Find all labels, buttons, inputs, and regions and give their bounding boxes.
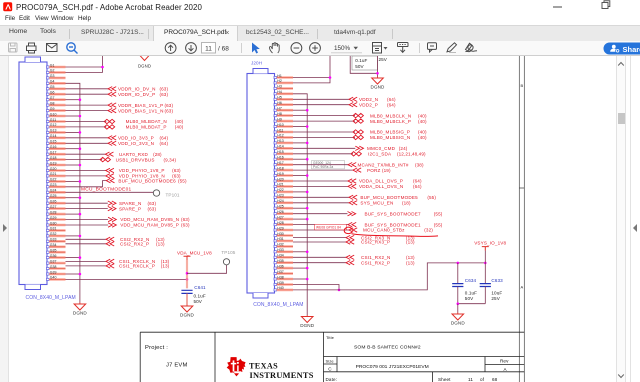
svg-text:(63): (63) — [165, 103, 174, 108]
svg-text:CON_8X40_M_LPAM: CON_8X40_M_LPAM — [26, 295, 76, 301]
svg-text:H29: H29 — [277, 226, 283, 230]
right collapsed panel — [630, 56, 631, 382]
net BUF_MCU_BOOTMODE6 (G23 jog) — [66, 178, 187, 187]
svg-text:(40): (40) — [418, 113, 427, 118]
svg-text:G24: G24 — [50, 189, 57, 193]
svg-text:H37: H37 — [277, 270, 283, 274]
svg-text:DGND: DGND — [180, 313, 195, 318]
ground DGND left bus — [73, 303, 88, 316]
svg-text:MCU_CAN0_STBz: MCU_CAN0_STBz — [363, 228, 405, 233]
svg-text:C634: C634 — [465, 278, 477, 283]
svg-text:H38: H38 — [277, 275, 283, 279]
svg-text:H5: H5 — [277, 96, 282, 100]
svg-text:H16: H16 — [277, 156, 283, 160]
svg-text:0.1uF: 0.1uF — [355, 58, 367, 63]
wire to TP105 — [187, 259, 230, 274]
svg-text:G25: G25 — [50, 194, 57, 198]
svg-text:G13: G13 — [50, 129, 57, 133]
svg-text:H2: H2 — [277, 79, 282, 83]
svg-text:H26: H26 — [277, 210, 283, 214]
connector left CON_8X40_M_LPAM — [19, 57, 76, 301]
net MLB0_MLBSIG_P / MLB0_MLBSIG_N (H11,H12) — [293, 130, 427, 140]
svg-text:(64): (64) — [160, 141, 169, 146]
svg-text:MMC0_CMD: MMC0_CMD — [367, 146, 396, 151]
svg-text:BUF_SYS_BOOTMODE7: BUF_SYS_BOOTMODE7 — [365, 211, 421, 216]
power flag VSYS_IO_1V8 — [474, 240, 506, 263]
ground bus middle (H4) — [293, 94, 309, 315]
wire G40 to C641 node — [66, 278, 189, 281]
svg-text:(24): (24) — [399, 146, 408, 151]
svg-text:VDDR_BIAS_1V1_P: VDDR_BIAS_1V1_P — [118, 103, 163, 108]
svg-text:DGND: DGND — [73, 311, 88, 316]
svg-text:CSI1_RX2_N: CSI1_RX2_N — [361, 255, 391, 260]
title block project text — [145, 345, 188, 369]
toolbar — [0, 41, 640, 56]
svg-text:(55): (55) — [434, 222, 443, 227]
svg-text:MLB0_MLBSIG_P: MLB0_MLBSIG_P — [370, 130, 410, 135]
title block frame — [140, 332, 524, 382]
svg-text:(63): (63) — [165, 108, 174, 113]
wire H1 H2 riser to top — [293, 56, 331, 83]
wire G1 G2 riser to top — [66, 56, 104, 72]
svg-text:0.1uF: 0.1uF — [465, 291, 477, 296]
ground DGND top-left (partial) — [138, 55, 151, 69]
annotation box WE08 GPIO1 84 — [315, 224, 347, 230]
svg-text:MLB0_MLBDAT_N: MLB0_MLBDAT_N — [126, 119, 167, 124]
svg-text:G16: G16 — [50, 145, 57, 149]
svg-text:G33: G33 — [50, 238, 57, 242]
svg-text:(63): (63) — [148, 206, 157, 211]
svg-text:SYS_MCU_EN: SYS_MCU_EN — [360, 201, 393, 206]
svg-text:VDD_MCU_RAM_DV85_N: VDD_MCU_RAM_DV85_N — [120, 217, 179, 222]
svg-text:H19: H19 — [277, 172, 283, 176]
svg-text:(13): (13) — [406, 240, 415, 245]
title block size/doc/rev — [326, 359, 510, 372]
svg-text:G26: G26 — [50, 200, 57, 204]
svg-text:(55): (55) — [178, 178, 187, 183]
svg-text:25V: 25V — [491, 296, 500, 301]
net I2C1_SDA (H15) — [293, 152, 426, 157]
svg-text:UART0_RXD: UART0_RXD — [119, 152, 149, 157]
svg-text:MLB0_MLBDAT_P: MLB0_MLBDAT_P — [126, 125, 167, 130]
svg-text:(63): (63) — [160, 92, 169, 97]
wire H40 to cap bank — [293, 262, 487, 290]
svg-text:of: of — [480, 377, 485, 382]
capacitor 0.1uF 50V top (partial) — [352, 56, 378, 70]
TI logo — [227, 357, 246, 376]
svg-text:G11: G11 — [50, 118, 56, 122]
svg-text:J20H: J20H — [251, 61, 262, 66]
svg-text:G22: G22 — [50, 178, 57, 182]
svg-text:G35: G35 — [50, 249, 57, 253]
ground DGND C641 — [180, 305, 195, 318]
annotation box GE000_124 — [312, 161, 345, 170]
svg-text:VDA_MCU_1V8: VDA_MCU_1V8 — [177, 250, 212, 255]
svg-text:(64): (64) — [387, 97, 396, 102]
svg-text:(55): (55) — [434, 211, 443, 216]
svg-text:VDD2_P: VDD2_P — [359, 102, 378, 107]
net MMC0_CMD (H14) — [293, 146, 408, 151]
svg-text:BUF_SYS_BOOTMODE1: BUF_SYS_BOOTMODE1 — [365, 222, 421, 227]
svg-text:50V: 50V — [194, 299, 203, 304]
net MCAN2_TX/MLB_INT# (H17) — [293, 162, 424, 167]
svg-text:SOM B-B SAMTEC CONN#2: SOM B-B SAMTEC CONN#2 — [354, 345, 421, 351]
net VDD2_N / VDD2_P (H5,H6) — [293, 97, 396, 107]
svg-text:CSI2_RX2_P: CSI2_RX2_P — [120, 242, 149, 247]
schematic frame right border with zones — [519, 56, 524, 382]
net SYS_MCU_EN (H24) — [293, 201, 411, 206]
svg-text:G17: G17 — [50, 151, 57, 155]
svg-text:PROC079 001 J721EXCP01EVM: PROC079 001 J721EXCP01EVM — [356, 364, 429, 370]
svg-text:PoC 90Ra 2a: PoC 90Ra 2a — [313, 165, 333, 169]
svg-text:VDD_PHYIO_1V8_P: VDD_PHYIO_1V8_P — [119, 168, 165, 173]
title bar — [0, 0, 640, 13]
svg-text:H3: H3 — [277, 85, 282, 89]
ground DGND top — [371, 77, 386, 90]
svg-text:G6: G6 — [50, 91, 55, 95]
svg-text:G3: G3 — [50, 74, 55, 78]
svg-text:G19: G19 — [50, 161, 57, 165]
wire cap bank bottom — [457, 302, 486, 312]
svg-text:(64): (64) — [413, 184, 422, 189]
svg-text:50V: 50V — [465, 296, 474, 301]
svg-text:(32): (32) — [424, 228, 433, 233]
svg-text:MLB0_MLBSIG_N: MLB0_MLBSIG_N — [370, 135, 410, 140]
svg-text:MLB0_MLBCLK_N: MLB0_MLBCLK_N — [370, 113, 411, 118]
svg-text:H31: H31 — [277, 237, 283, 241]
svg-text:MCAN2_TX/MLB_INT#: MCAN2_TX/MLB_INT# — [358, 162, 409, 167]
svg-text:I2C1_SDA: I2C1_SDA — [368, 152, 392, 157]
left collapsed panel strip — [0, 56, 9, 382]
net USB1_DRVVBUS (G18) — [66, 157, 177, 162]
svg-text:H35: H35 — [277, 259, 283, 263]
net VDD_MCU_RAM_DV85_N / VDD_MCU_RAM_DV85_P (G29,G30) — [66, 217, 190, 228]
net BUF_MCU_BOOTMODE5 (H23) — [293, 195, 436, 200]
svg-text:CSI2_RX3_P: CSI2_RX3_P — [361, 240, 390, 245]
net MLB0_MLBDAT_N / MLB0_MLBDAT_P (G11,G12) — [66, 119, 184, 129]
svg-text:G20: G20 — [50, 167, 57, 171]
scrollbar — [616, 56, 626, 382]
svg-text:H9: H9 — [277, 117, 282, 121]
svg-text:G4: G4 — [50, 80, 55, 84]
svg-text:H12: H12 — [277, 134, 283, 138]
svg-text:H22: H22 — [277, 188, 283, 192]
svg-text:G27: G27 — [50, 205, 57, 209]
svg-text:VDD_IO_3V3_N: VDD_IO_3V3_N — [118, 141, 154, 146]
svg-text:SPARE_N: SPARE_N — [119, 201, 142, 206]
title block date/sheet row — [326, 377, 498, 382]
svg-text:G15: G15 — [50, 140, 57, 144]
svg-text:VDDA_DLL_DVS_P: VDDA_DLL_DVS_P — [359, 179, 403, 184]
net VDD_IO_3V3_P / VDD_IO_3V3_N (G14,G15) — [66, 136, 169, 147]
svg-text:(55): (55) — [427, 195, 436, 200]
svg-text:VDDA_DLL_DVS_N: VDDA_DLL_DVS_N — [359, 184, 403, 189]
svg-text:H21: H21 — [277, 183, 283, 187]
svg-text:(13): (13) — [406, 260, 415, 265]
TI logo wordmark — [249, 361, 314, 380]
svg-text:50V: 50V — [355, 64, 364, 69]
svg-text:VDD_MCU_RAM_DV85_P: VDD_MCU_RAM_DV85_P — [120, 223, 179, 228]
svg-text:/ 68: / 68 — [218, 46, 229, 53]
svg-text:G8: G8 — [50, 101, 55, 105]
svg-text:H36: H36 — [277, 264, 283, 268]
net VDD_PHYIO_1V8_P / VDD_PHYIO_1V8_N (G20,G21) — [66, 168, 182, 178]
value 25V (partial capacitor) — [379, 57, 388, 62]
svg-text:G28: G28 — [50, 210, 57, 214]
svg-text:Project :: Project : — [145, 345, 168, 351]
annotation red ink loop and underline — [344, 227, 438, 236]
svg-text:G31: G31 — [50, 227, 57, 231]
svg-text:G23: G23 — [50, 183, 57, 187]
svg-text:PORZ: PORZ — [367, 168, 381, 173]
tab bar — [0, 25, 640, 41]
svg-text:150%: 150% — [334, 45, 351, 52]
svg-text:DGND: DGND — [300, 323, 315, 328]
svg-text:VDDR_BIAS_1V1_N: VDDR_BIAS_1V1_N — [118, 108, 164, 113]
capacitor C641 — [181, 285, 206, 305]
svg-text:G39: G39 — [50, 270, 57, 274]
svg-text:H27: H27 — [277, 215, 283, 219]
wire VDA node vertical — [186, 260, 189, 288]
net PORZ (H18) — [293, 168, 391, 173]
svg-text:BUF_MCU_BOOTMODE6: BUF_MCU_BOOTMODE6 — [118, 178, 176, 183]
svg-text:(40): (40) — [175, 125, 184, 130]
svg-text:G30: G30 — [50, 221, 57, 225]
svg-text:H17: H17 — [277, 161, 283, 165]
capacitor C634 — [452, 263, 477, 304]
svg-text:G12: G12 — [50, 123, 57, 127]
svg-text:11: 11 — [468, 377, 473, 382]
svg-text:G1: G1 — [50, 63, 55, 67]
svg-text:(28): (28) — [153, 152, 162, 157]
svg-text:G38: G38 — [50, 265, 57, 269]
svg-text:WE08 GPIO1 84: WE08 GPIO1 84 — [316, 225, 341, 229]
svg-text:H11: H11 — [277, 128, 283, 132]
svg-text:(18): (18) — [402, 201, 411, 206]
svg-text:H25: H25 — [277, 205, 283, 209]
svg-text:G18: G18 — [50, 156, 57, 160]
svg-text:68: 68 — [492, 377, 498, 382]
svg-text:(12,21,48,49): (12,21,48,49) — [397, 152, 426, 157]
capacitor C633 — [480, 263, 503, 304]
svg-text:C633: C633 — [491, 278, 503, 283]
svg-text:Title: Title — [326, 335, 335, 340]
svg-text:G29: G29 — [50, 216, 57, 220]
svg-text:G9: G9 — [50, 107, 55, 111]
power flag VDA_MCU_1V8 — [177, 250, 212, 260]
net SPARE_N / SPARE_P (G26,G27) — [66, 201, 157, 211]
svg-text:(13): (13) — [406, 255, 415, 260]
net MLB0_MLBCLK_N / MLB0_MLBCLK_P (H8,H9) — [293, 113, 427, 124]
menu bar — [0, 13, 640, 25]
svg-text:CSI1_RXCLK_P: CSI1_RXCLK_P — [119, 264, 155, 269]
svg-text:H8: H8 — [277, 112, 282, 116]
svg-text:(19): (19) — [382, 168, 391, 173]
svg-text:(38): (38) — [415, 162, 424, 167]
svg-text:Size: Size — [326, 359, 335, 364]
svg-text:G32: G32 — [50, 232, 57, 236]
svg-text:DGND: DGND — [371, 85, 386, 90]
svg-text:SPARE_P: SPARE_P — [119, 206, 141, 211]
svg-text:H18: H18 — [277, 166, 283, 170]
net CSI1_RX2_N / CSI1_RX2_P (H34,H35) — [293, 255, 415, 265]
net CSI2_RX2_N / CSI2_RX2_P (G33,G34) — [66, 237, 165, 247]
svg-text:G7: G7 — [50, 96, 55, 100]
svg-text:H34: H34 — [277, 254, 283, 258]
ground bus left (G4) — [66, 83, 82, 302]
svg-text:(9,34): (9,34) — [164, 157, 177, 162]
svg-text:G5: G5 — [50, 85, 55, 89]
svg-text:VDD_IO_3V3_P: VDD_IO_3V3_P — [118, 136, 154, 141]
svg-text:A: A — [504, 367, 508, 372]
net VDDR_BIAS_1V1_P / VDDR_BIAS_1V1_N (G8,G9) — [66, 103, 174, 114]
svg-text:H40: H40 — [277, 286, 283, 290]
svg-text:G34: G34 — [50, 243, 57, 247]
svg-text:G37: G37 — [50, 259, 57, 263]
net BUF_SYS_BOOTMODE7 (H26) — [293, 211, 443, 216]
svg-text:H28: H28 — [277, 221, 283, 225]
testpoint TP105 label — [221, 250, 235, 255]
svg-text:B: B — [520, 83, 523, 88]
svg-text:G14: G14 — [50, 134, 57, 138]
net VDDR_IO_DV_N / VDDR_IO_DV_P (G5,G6) — [66, 87, 169, 97]
svg-text:Share: Share — [623, 45, 640, 54]
svg-text:(40): (40) — [418, 130, 427, 135]
svg-text:CSI1_RX2_P: CSI1_RX2_P — [361, 260, 390, 265]
svg-text:(40): (40) — [175, 119, 184, 124]
svg-text:(63): (63) — [172, 168, 181, 173]
ground DGND middle bus — [300, 315, 315, 328]
refdes J20H — [251, 61, 262, 66]
svg-text:INSTRUMENTS: INSTRUMENTS — [250, 371, 314, 380]
testpoint TP101 label — [166, 193, 180, 198]
svg-text:H10: H10 — [277, 123, 283, 127]
net CSI1_RXCLK_N / CSI1_RXCLK_P (G37,G38) — [66, 259, 170, 269]
svg-text:(63): (63) — [160, 87, 169, 92]
svg-text:VDDR_IO_DV_P: VDDR_IO_DV_P — [118, 92, 155, 97]
net CSI2_RX3_N / CSI2_RX3_P (H30,H31) — [293, 235, 415, 244]
svg-text:(63): (63) — [181, 217, 190, 222]
wire top cap to DGND — [350, 56, 379, 77]
svg-text:G40: G40 — [50, 276, 57, 280]
svg-text:DGND: DGND — [138, 63, 151, 68]
net MCU_BOOTMODE01 to TP101 (G24) — [66, 186, 160, 196]
svg-text:25V: 25V — [379, 57, 388, 62]
svg-text:(13): (13) — [161, 264, 170, 269]
svg-text:11: 11 — [205, 46, 212, 53]
svg-text:H23: H23 — [277, 194, 283, 198]
svg-text:VDDR_IO_DV_N: VDDR_IO_DV_N — [118, 87, 156, 92]
svg-text:C641: C641 — [194, 285, 206, 290]
svg-text:DGND: DGND — [451, 321, 466, 326]
svg-text:(64): (64) — [160, 136, 169, 141]
svg-text:C: C — [328, 367, 332, 372]
svg-text:VDD2_N: VDD2_N — [359, 97, 378, 102]
svg-text:H1: H1 — [277, 74, 282, 78]
title block title text — [326, 335, 421, 351]
svg-text:G36: G36 — [50, 254, 57, 258]
svg-text:MLB0_MLBCLK_P: MLB0_MLBCLK_P — [370, 119, 411, 124]
svg-text:(13): (13) — [156, 242, 165, 247]
svg-text:BUF_MCU_BOOTMODE5: BUF_MCU_BOOTMODE5 — [360, 195, 418, 200]
svg-text:H6: H6 — [277, 101, 282, 105]
svg-text:(40): (40) — [418, 119, 427, 124]
svg-text:H13: H13 — [277, 139, 283, 143]
svg-text:H20: H20 — [277, 177, 283, 181]
net MCU_CAN0_STBz (H29) — [293, 228, 433, 233]
svg-text:(40): (40) — [418, 135, 427, 140]
svg-text:H4: H4 — [277, 90, 282, 94]
svg-text:H15: H15 — [277, 150, 283, 154]
svg-text:G21: G21 — [50, 172, 57, 176]
wire H39 jog into H40 — [293, 285, 340, 292]
svg-text:Date:: Date: — [326, 377, 337, 382]
svg-text:H30: H30 — [277, 232, 283, 236]
svg-text:(64): (64) — [413, 179, 422, 184]
ground DGND cap bank — [451, 313, 466, 326]
svg-text:TP105: TP105 — [221, 250, 235, 255]
net BUF_SYS_BOOTMODE1 (H28) — [293, 222, 443, 227]
svg-text:H39: H39 — [277, 281, 283, 285]
svg-text:(64): (64) — [387, 102, 396, 107]
svg-text:TP101: TP101 — [166, 193, 180, 198]
svg-text:J7 EVM: J7 EVM — [166, 363, 188, 369]
svg-text:A: A — [520, 285, 523, 290]
svg-text:TEXAS: TEXAS — [249, 361, 278, 370]
svg-text:H33: H33 — [277, 248, 283, 252]
svg-text:H32: H32 — [277, 243, 283, 247]
svg-text:H14: H14 — [277, 145, 283, 149]
svg-text:(63): (63) — [181, 223, 190, 228]
net UART0_RXD (G17) — [66, 152, 163, 157]
net VDDA_DLL_DVS_P / VDDA_DLL_DVS_N (H20,H21) — [293, 179, 422, 189]
svg-text:(63): (63) — [148, 201, 157, 206]
svg-text:Sheet: Sheet — [438, 377, 451, 382]
svg-text:G2: G2 — [50, 69, 55, 73]
svg-text:MCU_BOOTMODE01: MCU_BOOTMODE01 — [81, 186, 131, 192]
svg-text:H7: H7 — [277, 107, 282, 111]
svg-text:Rev: Rev — [500, 359, 509, 364]
svg-text:G10: G10 — [50, 112, 57, 116]
svg-text:VSYS_IO_1V8: VSYS_IO_1V8 — [474, 240, 506, 245]
svg-text:10uF: 10uF — [491, 291, 502, 296]
svg-text:H24: H24 — [277, 199, 283, 203]
svg-text:USB1_DRVVBUS: USB1_DRVVBUS — [116, 157, 155, 162]
connector J20H CON_8X40_M_LPAM — [247, 69, 304, 309]
svg-text:CON_8X40_M_LPAM: CON_8X40_M_LPAM — [253, 302, 303, 308]
